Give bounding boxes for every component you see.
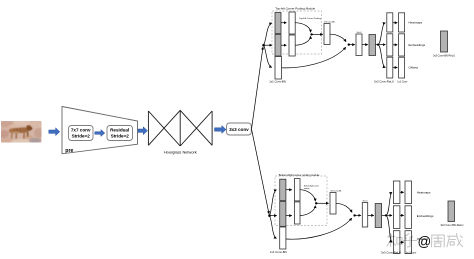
wire: relu to conv3 (362, 44, 368, 46)
svg-text:Embeddings: Embeddings (409, 43, 426, 47)
svg-text:pre: pre (65, 148, 73, 154)
add node (353, 214, 355, 216)
pooling label line1 (304, 184, 320, 187)
3x3 conv box (227, 123, 252, 135)
head conv rects column2 (405, 181, 412, 204)
convbn label (324, 21, 335, 23)
relu box (356, 34, 362, 56)
svg-text:Residual: Residual (110, 128, 129, 133)
wire: skip conv to add (282, 47, 346, 68)
svg-text:Top-left Corner Pooling Module: Top-left Corner Pooling Module (275, 6, 315, 10)
wire: conv2 to pool2 (281, 44, 286, 46)
wire: split to bottom module (252, 129, 270, 214)
svg-text:Hourglass Network: Hourglass Network (164, 149, 197, 154)
wire: convbn to add (330, 34, 346, 42)
svg-text:3x3 Conv-BN: 3x3 Conv-BN (331, 190, 342, 192)
wire: split to top module (252, 47, 264, 129)
svg-text:1x1 Conv-BN: 1x1 Conv-BN (270, 250, 287, 254)
conv1 (gray) (280, 179, 286, 200)
conv1 (3x3 Conv-BN-ReLU gray) (275, 13, 281, 34)
wire: convbn to add (336, 203, 352, 212)
column labels (374, 80, 394, 84)
input node (262, 44, 265, 47)
wire: add to relu (355, 214, 361, 216)
dashed module box (272, 11, 322, 54)
wire: node to conv2 (264, 44, 272, 46)
wire: fan to head3 (378, 45, 385, 68)
wire: relu to conv3 (368, 214, 374, 216)
head conv rects column2 (399, 13, 405, 32)
wire: conv2 to pool2 (286, 215, 292, 217)
svg-text:1x1 Conv: 1x1 Conv (397, 81, 408, 84)
wire: fan to head2 (378, 44, 385, 46)
convbn label (331, 190, 342, 192)
tiger body (10, 127, 28, 133)
wire: node to skip conv (264, 45, 272, 67)
module title (275, 6, 315, 10)
svg-text:3x3 Conv-ReLU: 3x3 Conv-ReLU (374, 80, 394, 84)
svg-text:Stride=2: Stride=2 (72, 133, 91, 138)
wire: node to skip conv (270, 216, 277, 239)
hourglass network (148, 110, 212, 146)
tiger head (26, 125, 32, 131)
svg-text:Bottom-Right corner pooling mo: Bottom-Right corner pooling module (279, 173, 320, 177)
arrow: 7x7 conv to residual (95, 130, 105, 137)
convbn (330, 193, 336, 215)
wire: node to conv1 (264, 23, 272, 45)
residual box (107, 126, 133, 141)
zhi (389, 234, 391, 238)
head conv rects column1 (393, 181, 400, 204)
wire: add to relu (349, 44, 355, 46)
watermark 知乎@周威 (387, 234, 417, 248)
svg-text:Offsets: Offsets (409, 66, 419, 70)
svg-text:Embeddings: Embeddings (417, 214, 434, 218)
pre trapezoid (62, 107, 138, 154)
wei (448, 235, 457, 237)
legend label (433, 54, 455, 57)
legs (11, 133, 13, 139)
convbn (3x3 Conv-BN) (324, 24, 330, 45)
wire: node to conv1 (270, 190, 277, 216)
legend label (440, 223, 463, 227)
wires: col1 to col2 (400, 191, 404, 193)
relu label (363, 201, 368, 203)
dashed module box (275, 176, 327, 226)
fan node (377, 44, 379, 46)
arrow: hourglass to 3x3 conv (215, 126, 227, 134)
pool1 (294, 179, 300, 201)
skip conv label (269, 79, 286, 83)
svg-text:Heatmaps: Heatmaps (417, 191, 431, 195)
module title (279, 173, 320, 177)
relu box (362, 203, 367, 228)
svg-text:Heatmaps: Heatmaps (409, 21, 423, 25)
arrow: pre to hourglass (138, 127, 148, 135)
pool2 (294, 202, 300, 224)
hu (406, 234, 410, 237)
wire: pool1 to merge (295, 23, 310, 33)
wire: pool1 to merge (300, 190, 315, 202)
svg-text:3x3 conv: 3x3 conv (229, 127, 249, 132)
conv2 (gray) (280, 202, 286, 227)
legend gray rect (448, 201, 455, 222)
wire: fan to head3 (386, 215, 392, 242)
wire: pool2 to merge (295, 36, 310, 45)
svg-text:1x1 Conv-BN: 1x1 Conv-BN (269, 79, 286, 83)
wire: fan to head2 (386, 214, 392, 216)
wire: conv1 to pool1 (281, 22, 286, 24)
wire: conv1 to pool1 (286, 189, 292, 191)
faint stripes (14, 128, 20, 132)
add node (348, 43, 350, 45)
svg-text:3x3 Conv-BN-ReLU: 3x3 Conv-BN-ReLU (440, 223, 463, 227)
svg-text:3x3 Conv-ReLU: 3x3 Conv-ReLU (381, 251, 401, 255)
svg-text:@: @ (418, 234, 432, 249)
pooling label (299, 17, 322, 20)
wires: col1 to col2 (393, 22, 398, 24)
wire: fan to head1 (378, 23, 385, 45)
wire: merge to convbn (312, 33, 323, 35)
skip conv (280, 227, 286, 249)
skip conv label (270, 250, 287, 254)
column labels (381, 251, 401, 255)
pool2 (left pooling) (289, 35, 295, 56)
wire: fan to head1 (386, 192, 392, 215)
pool1 (top pooling) (289, 12, 295, 34)
conv3 (3x3 Conv-BN-ReLU gray) (369, 35, 376, 56)
zhou (432, 235, 445, 247)
wire: skip conv to add (286, 218, 352, 239)
input node (268, 214, 271, 217)
arrow: image to pre (49, 128, 60, 136)
relu label (357, 32, 362, 34)
head conv rects column1 (387, 13, 393, 32)
wire: merge to convbn (316, 202, 328, 204)
merge node (315, 202, 317, 204)
input image (tiger photo) (0, 120, 44, 144)
svg-text:pooling: pooling (304, 188, 310, 190)
svg-text:7x7 conv: 7x7 conv (71, 128, 91, 133)
legend gray rect (441, 31, 448, 52)
skip conv (1x1 Conv-BN) (275, 57, 282, 80)
svg-text:3x3 Conv-BN-ReLU: 3x3 Conv-BN-ReLU (433, 54, 455, 57)
merge node (310, 33, 312, 35)
7x7 conv box (69, 126, 94, 141)
output labels (409, 21, 423, 25)
fan node (385, 214, 387, 216)
wire: pool2 to merge (300, 206, 315, 216)
wire: node to conv2 (270, 215, 277, 217)
pooling label line2 (304, 188, 310, 190)
output labels (417, 191, 431, 195)
svg-text:Stride=2: Stride=2 (111, 133, 130, 138)
back highlight (10, 124, 24, 127)
belly light patch (12, 132, 20, 134)
conv3 (gray) (375, 204, 381, 228)
conv2 (3x3 Conv-BN-ReLU gray) (275, 35, 281, 57)
svg-text:1x1 Conv: 1x1 Conv (406, 252, 417, 255)
svg-text:3x3 Conv-BN: 3x3 Conv-BN (324, 21, 335, 23)
